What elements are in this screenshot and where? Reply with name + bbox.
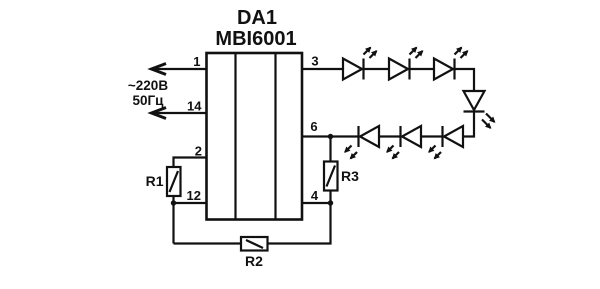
resistor R2	[241, 237, 268, 251]
LED 2 light arrow b	[416, 51, 423, 58]
wire LED3 to right corner	[455, 69, 475, 91]
wire pin 14	[152, 112, 207, 114]
svg-text:4: 4	[311, 188, 319, 203]
svg-text:1: 1	[193, 54, 200, 69]
AC input arrow pin 1	[152, 64, 167, 75]
wire pin 4	[302, 202, 331, 204]
resistor R1	[167, 167, 181, 196]
svg-text:R2: R2	[245, 253, 263, 269]
resistor R2 slash	[246, 240, 263, 248]
wire LED2-LED3	[410, 68, 435, 70]
LED 3 light arrow b	[461, 51, 468, 58]
LED 3 light arrow a	[455, 48, 462, 55]
LED 4 triangle	[464, 91, 485, 110]
LED 7 cathode bar	[441, 126, 443, 147]
svg-text:DA1: DA1	[237, 7, 277, 29]
wire pin 1	[152, 68, 207, 70]
wire LED7-LED6	[421, 135, 443, 137]
resistor R1 slash	[170, 171, 179, 192]
LED 3 triangle	[434, 59, 453, 80]
svg-text:R1: R1	[146, 173, 164, 189]
LED 2 triangle	[389, 59, 408, 80]
svg-text:50Гц: 50Гц	[133, 93, 165, 108]
wire bottom rail right	[268, 203, 331, 244]
LED 2 cathode bar	[408, 59, 410, 80]
wire R1 bottom to bottom rail	[172, 196, 174, 244]
wire pin 6	[302, 135, 359, 137]
LED 1 triangle	[343, 59, 362, 80]
wire R3 bottom	[329, 191, 331, 204]
wire LED1-LED2	[364, 68, 390, 70]
wire pin 3	[302, 68, 343, 70]
svg-text:6: 6	[310, 119, 317, 134]
svg-text:~220В: ~220В	[128, 78, 168, 93]
svg-text:2: 2	[195, 144, 202, 159]
LED 2 light arrow a	[410, 48, 417, 55]
LED 3 cathode bar	[453, 59, 455, 80]
resistor R3	[324, 162, 338, 191]
LED 4 light arrow a	[486, 114, 495, 123]
LED 6 cathode bar	[399, 126, 401, 147]
svg-text:3: 3	[311, 54, 318, 69]
svg-text:R3: R3	[341, 168, 359, 184]
chip internal divider line 1	[234, 53, 236, 220]
LED 5 triangle	[360, 126, 379, 147]
LED 4 cathode bar	[464, 110, 485, 112]
LED 5 light arrow a	[345, 146, 352, 153]
svg-text:14: 14	[187, 99, 202, 114]
LED 6 triangle	[402, 126, 421, 147]
LED 1 light arrow b	[370, 51, 377, 58]
LED 7 light arrow a	[429, 146, 436, 153]
wire R3 top	[329, 137, 331, 162]
junction dot pin 4	[328, 200, 333, 205]
wire LED6-LED5	[379, 135, 401, 137]
LED 1 light arrow a	[364, 48, 371, 55]
wire bottom rail left	[174, 242, 242, 244]
svg-text:MBI6001: MBI6001	[215, 28, 296, 50]
wire LED4 to bottom row corner	[463, 112, 474, 137]
LED 7 light arrow b	[435, 152, 442, 159]
wire pin 12	[174, 202, 207, 204]
resistor R3 slash	[327, 166, 336, 187]
junction dot pin 12	[171, 200, 176, 205]
LED 6 light arrow b	[393, 152, 400, 159]
wire pin 2	[174, 158, 207, 168]
chip internal divider line 2	[274, 53, 276, 220]
LED 5 light arrow b	[351, 152, 358, 159]
junction dot pin 6	[328, 134, 333, 139]
LED 5 cathode bar	[357, 126, 359, 147]
LED 4 light arrow b	[482, 120, 491, 129]
LED 1 cathode bar	[362, 59, 364, 80]
AC input arrow pin 14	[152, 108, 167, 119]
LED 6 light arrow a	[387, 146, 394, 153]
LED 7 triangle	[444, 126, 463, 147]
svg-text:12: 12	[187, 188, 201, 203]
chip U/DA1 body	[207, 53, 303, 220]
